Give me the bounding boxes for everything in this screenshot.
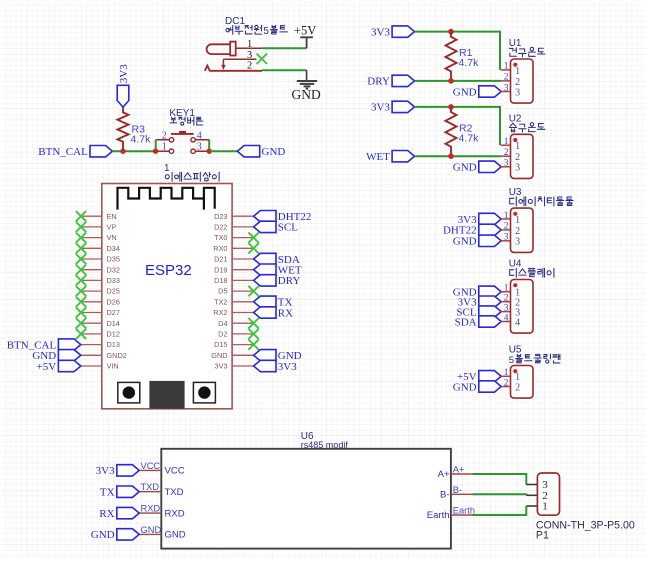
U6 pin Earth: [427, 506, 475, 522]
connector U4 body: [511, 280, 534, 334]
svg-text:+5V: +5V: [37, 361, 57, 373]
name calibration-button (Korean): [170, 117, 203, 125]
net flag RX (U6): [99, 507, 139, 520]
net flag SDA: [455, 316, 502, 329]
U5 pin 2 stub: [501, 378, 511, 388]
svg-text:3: 3: [504, 159, 509, 169]
net flag BTN_CAL: [38, 146, 112, 159]
connector U5 body: [511, 366, 534, 399]
svg-text:SDA: SDA: [455, 316, 477, 328]
name fan5v: [509, 354, 560, 366]
ESP32 pin GND2: [81, 351, 127, 360]
svg-text:D35: D35: [107, 255, 120, 264]
svg-text:B-: B-: [453, 485, 462, 495]
junction: [448, 29, 454, 35]
U6 pin GND: [139, 525, 186, 541]
svg-text:4.7k: 4.7k: [131, 134, 152, 146]
U6 pin RXD: [139, 504, 184, 520]
ESP32 pin GND: [211, 351, 253, 360]
name rs485 modif: [301, 440, 349, 450]
net flag GND: [453, 86, 501, 99]
svg-text:4: 4: [504, 313, 509, 323]
svg-text:2: 2: [515, 77, 520, 88]
svg-text:3: 3: [504, 83, 509, 93]
no-connect X on TX0: [248, 232, 258, 242]
net flag 3V3: [371, 26, 415, 39]
U4 pin 1 stub: [501, 284, 511, 294]
name wetbulb: [509, 123, 545, 132]
svg-text:2: 2: [515, 226, 520, 237]
junction KEY1 left: [153, 149, 158, 154]
ESP32 pin D12: [81, 330, 120, 339]
svg-text:D32: D32: [107, 265, 120, 274]
wire WET: [415, 155, 502, 157]
svg-text:GND: GND: [91, 529, 115, 541]
designator DC1: [225, 16, 245, 27]
svg-text:VCC: VCC: [165, 466, 185, 477]
svg-text:DRY: DRY: [278, 275, 301, 287]
svg-text:U4: U4: [509, 259, 522, 270]
U4 pin 2 stub: [501, 294, 511, 304]
svg-text:1: 1: [504, 284, 509, 294]
net flag 3V3: [371, 101, 415, 114]
svg-text:TXD: TXD: [141, 482, 160, 492]
svg-text:TX0: TX0: [214, 233, 227, 242]
no-connect X on D26: [76, 297, 86, 307]
svg-text:GND: GND: [262, 146, 286, 158]
resistor R1: [446, 32, 480, 81]
net flag GND (ESP32): [254, 350, 302, 363]
svg-text:1: 1: [164, 163, 170, 174]
U1 pin 3 stub: [501, 83, 511, 93]
net flag GND (U6): [91, 529, 139, 542]
ESP32 pin RX0: [213, 244, 253, 253]
svg-text:3: 3: [247, 50, 252, 61]
svg-text:EN: EN: [107, 212, 117, 221]
svg-text:BTN_CAL: BTN_CAL: [38, 146, 88, 158]
svg-text:D21: D21: [214, 255, 227, 264]
svg-text:ESP32: ESP32: [145, 262, 192, 279]
no-connect X on D32: [76, 265, 86, 275]
ESP32 pin D23: [214, 212, 253, 221]
net flag 3V3: [458, 296, 502, 309]
ESP32 pin VN: [81, 233, 117, 242]
designator P1: [536, 530, 549, 542]
U1 pin 1 stub: [501, 62, 511, 72]
net flag TX (U6): [100, 486, 139, 499]
net flag TX (ESP32): [254, 296, 293, 309]
svg-text:2: 2: [162, 130, 167, 141]
svg-text:D25: D25: [107, 287, 120, 296]
ground GND (DC1): [292, 70, 321, 102]
svg-text:RX: RX: [278, 307, 293, 319]
svg-text:3: 3: [504, 303, 509, 313]
ESP32 pin D32: [81, 265, 120, 274]
no-connect X on D4: [248, 318, 258, 328]
wire KEY1 pin4-pin3 right: [208, 140, 210, 151]
svg-text:A+: A+: [453, 465, 465, 475]
designator KEY1: [169, 108, 195, 119]
wire A+ to P1.3: [473, 474, 527, 485]
ESP32 pin D5: [218, 287, 253, 296]
U2 pin 1 stub: [501, 137, 511, 147]
svg-text:1: 1: [515, 215, 520, 226]
U3 pin 1 stub: [501, 211, 511, 221]
svg-text:D19: D19: [214, 265, 227, 274]
wire 3V3 rail: [415, 107, 501, 145]
ESP32 pin 3V3: [215, 362, 254, 371]
svg-text:DC1: DC1: [225, 16, 245, 27]
designator U1: [509, 38, 522, 49]
ESP32 pin TX0: [214, 233, 253, 242]
svg-text:GND: GND: [453, 86, 477, 98]
svg-text:1: 1: [504, 211, 509, 221]
U4 pin 4 stub: [501, 313, 511, 323]
name external-power-5V (Korean): [226, 25, 287, 37]
name ESP32 (Korean: i-e-s-pi-sam-i): [165, 172, 219, 181]
svg-text:TXD: TXD: [165, 487, 184, 498]
designator U2: [509, 113, 522, 124]
wire KEY1 pin2-pin1 left: [155, 140, 157, 151]
svg-text:D33: D33: [107, 276, 120, 285]
designator U3: [509, 187, 522, 198]
svg-text:VIN: VIN: [107, 362, 119, 371]
name display: [510, 268, 554, 277]
svg-text:D4: D4: [218, 319, 227, 328]
ESP32 pin D4: [218, 319, 253, 328]
ESP32 pin D22: [214, 223, 253, 232]
U3 pin 3 stub: [501, 233, 511, 243]
footprint CONN-TH_3P-P5.00: [536, 519, 635, 531]
no-connect X on D27: [76, 307, 86, 317]
wire Earth to P1.1: [473, 506, 527, 515]
no-connect X on DC1 pin 3: [257, 54, 267, 64]
U6 pin B-: [440, 485, 473, 501]
svg-text:D15: D15: [214, 340, 227, 349]
svg-text:U3: U3: [509, 187, 522, 198]
svg-text:2: 2: [515, 152, 520, 163]
DC1 pin number 2: [247, 61, 252, 72]
ESP32 pin D26: [81, 297, 120, 306]
no-connect X on EN: [76, 211, 86, 221]
designator U5: [509, 345, 522, 356]
no-connect X on D14: [76, 318, 86, 328]
KEY1 pin 1: [162, 142, 167, 153]
wire KEY1 to GND: [209, 150, 237, 152]
svg-text:U1: U1: [509, 38, 522, 49]
svg-text:TX: TX: [100, 487, 115, 499]
wire B- to P1.2: [473, 494, 527, 495]
net flag RX (ESP32): [254, 307, 294, 320]
power flag +5V: [294, 24, 316, 49]
svg-text:3: 3: [504, 233, 509, 243]
svg-text:GND: GND: [453, 162, 477, 174]
no-connect X on D33: [76, 275, 86, 285]
junction: [448, 78, 454, 84]
net flag SDA (ESP32): [254, 253, 300, 265]
DC1 pin number 3: [247, 50, 252, 61]
svg-text:GND: GND: [211, 351, 227, 360]
junction: [448, 153, 454, 159]
svg-text:D2: D2: [218, 330, 227, 339]
svg-text:SCL: SCL: [278, 222, 298, 234]
svg-text:GND: GND: [292, 87, 321, 102]
svg-text:3V3: 3V3: [96, 465, 115, 477]
svg-text:+5V: +5V: [294, 24, 316, 38]
svg-text:D13: D13: [107, 340, 120, 349]
svg-text:D12: D12: [107, 330, 120, 339]
svg-text:3: 3: [197, 142, 202, 153]
svg-text:D23: D23: [214, 212, 227, 221]
net flag GND: [453, 235, 501, 248]
net flag DRY: [367, 75, 414, 88]
U4 pin 3 stub: [501, 303, 511, 313]
ESP32 pin D27: [81, 308, 120, 317]
resistor R2: [446, 107, 480, 156]
svg-text:4.7k: 4.7k: [459, 133, 480, 145]
svg-text:D5: D5: [218, 287, 227, 296]
U1 pin 2 stub: [501, 73, 511, 83]
svg-text:1: 1: [504, 368, 509, 378]
net flag GND (ESP32): [32, 350, 80, 363]
ESP32 pin D19: [214, 265, 253, 274]
ESP32 pin D13: [81, 340, 120, 349]
ESP32 pin RX2: [213, 308, 253, 317]
svg-text:D26: D26: [107, 297, 120, 306]
net flag 3V3 (U6): [96, 465, 140, 478]
svg-text:3: 3: [515, 237, 520, 248]
svg-text:VCC: VCC: [141, 461, 161, 471]
ESP32 pin D15: [214, 340, 253, 349]
wire DRY: [415, 80, 502, 82]
svg-text:4.7k: 4.7k: [459, 57, 480, 69]
no-connect X on D25: [76, 286, 86, 296]
KEY1 pin 4: [197, 130, 202, 141]
junction R3/BTN_CAL: [120, 149, 125, 154]
net flag DHT22 (ESP32): [254, 211, 312, 224]
U3 pin 2 stub: [501, 222, 511, 232]
svg-text:3: 3: [515, 87, 520, 98]
net flag DHT22: [443, 224, 501, 237]
designator 1 (ESP32 module): [164, 163, 170, 174]
svg-text:3: 3: [515, 163, 520, 174]
net flag SCL (ESP32): [254, 221, 299, 234]
net flag +5V: [457, 371, 501, 384]
svg-text:RX2: RX2: [213, 308, 227, 317]
ESP32 pin D33: [81, 276, 120, 285]
net flag GND: [453, 381, 501, 394]
svg-text:2: 2: [515, 382, 520, 393]
net flag GND (KEY1): [237, 146, 285, 159]
connector U2 body: [511, 134, 534, 178]
designator U6: [301, 431, 314, 442]
svg-text:D18: D18: [214, 276, 227, 285]
svg-text:5: 5: [509, 355, 514, 366]
svg-text:U2: U2: [509, 113, 522, 124]
switch KEY1: [156, 131, 210, 154]
U6 pin TXD: [139, 482, 183, 498]
U6 pin VCC: [139, 461, 184, 477]
module U6 body: [161, 449, 451, 549]
svg-text:1: 1: [162, 142, 167, 153]
connector DC1 barrel jack symbol: [205, 42, 262, 71]
net flag BTN_CAL (ESP32): [7, 339, 81, 352]
svg-text:3V3: 3V3: [278, 361, 297, 373]
svg-text:TX2: TX2: [214, 297, 227, 306]
label ESP32: [145, 262, 192, 279]
svg-text:4: 4: [515, 317, 520, 328]
antenna meander: [118, 188, 215, 210]
svg-text:GND: GND: [165, 530, 186, 541]
svg-text:GND2: GND2: [107, 351, 127, 360]
svg-text:1: 1: [504, 62, 509, 72]
ESP32 pin D25: [81, 287, 120, 296]
svg-text:1: 1: [515, 141, 520, 152]
svg-text:3V3: 3V3: [371, 102, 390, 114]
ESP32 pin D21: [214, 255, 253, 264]
svg-text:Earth: Earth: [453, 506, 475, 516]
ESP32 pin VIN: [81, 362, 119, 371]
ESP32 pin D18: [214, 276, 253, 285]
ESP32 pin TX2: [214, 297, 253, 306]
no-connect X on VN: [76, 232, 86, 242]
ESP32 pin D34: [81, 244, 120, 253]
net flag SCL: [456, 306, 501, 319]
no-connect X on VP: [76, 222, 86, 232]
svg-text:1: 1: [542, 501, 548, 513]
svg-text:RX0: RX0: [213, 244, 227, 253]
ESP32 pin D35: [81, 255, 120, 264]
shield block: [149, 381, 184, 409]
junction: [448, 104, 454, 110]
svg-text:B-: B-: [440, 490, 450, 501]
no-connect X on D2: [248, 329, 258, 339]
svg-text:2: 2: [504, 294, 509, 304]
svg-text:3V3: 3V3: [118, 64, 130, 83]
mounting pad right: [193, 382, 215, 403]
no-connect X on D12: [76, 329, 86, 339]
junction KEY1 right: [207, 149, 212, 154]
svg-text:RX: RX: [99, 508, 114, 520]
U5 pin 1 stub: [501, 368, 511, 378]
net flag 3V3 (vertical): [117, 64, 130, 107]
svg-text:GND: GND: [141, 525, 162, 535]
U6 pin A+: [438, 465, 473, 481]
net flag DRY (ESP32): [254, 275, 301, 288]
svg-text:5: 5: [263, 26, 269, 37]
svg-text:2: 2: [504, 378, 509, 388]
svg-text:1: 1: [247, 39, 252, 50]
DC1 pin number 1: [247, 39, 252, 50]
designator U4: [509, 259, 522, 270]
module U? ESP32 body: [102, 184, 232, 409]
svg-text:D27: D27: [107, 308, 120, 317]
ESP32 pin D2: [218, 330, 253, 339]
resistor R3: [118, 107, 152, 151]
svg-text:GND: GND: [453, 236, 477, 248]
name dht22: [510, 197, 573, 206]
svg-text:P1: P1: [536, 530, 549, 542]
net flag WET: [366, 151, 414, 164]
svg-text:3V3: 3V3: [215, 362, 228, 371]
name drybulb: [510, 47, 545, 56]
svg-text:2: 2: [504, 73, 509, 83]
svg-text:VP: VP: [107, 223, 117, 232]
svg-text:3V3: 3V3: [371, 26, 390, 38]
connector U3 body: [511, 208, 534, 252]
svg-text:WET: WET: [366, 151, 390, 163]
svg-text:D34: D34: [107, 244, 120, 253]
svg-text:RXD: RXD: [165, 508, 185, 519]
svg-text:GND: GND: [453, 381, 477, 393]
net flag WET (ESP32): [254, 264, 302, 277]
net flag 3V3 (ESP32): [254, 360, 298, 373]
wire BTN_CAL to KEY1: [112, 150, 156, 152]
ESP32 pin EN: [81, 212, 117, 221]
connector U1 body: [511, 59, 534, 103]
svg-text:1: 1: [504, 137, 509, 147]
no-connect X on D15: [248, 339, 258, 349]
svg-text:D14: D14: [107, 319, 120, 328]
svg-text:VN: VN: [107, 233, 117, 242]
svg-text:2: 2: [247, 61, 252, 72]
svg-text:CONN-TH_3P-P5.00: CONN-TH_3P-P5.00: [536, 519, 635, 531]
wire DC1 pin1 to +5V: [262, 47, 307, 49]
svg-text:D22: D22: [214, 223, 227, 232]
no-connect X on D35: [76, 254, 86, 264]
P1 pin 3 stub: [526, 484, 537, 486]
svg-text:4: 4: [197, 130, 202, 141]
net flag +5V (ESP32): [37, 360, 81, 373]
no-connect X on RX0: [248, 243, 258, 253]
no-connect X on D5: [248, 286, 258, 296]
connector P1 body: [537, 473, 559, 515]
svg-text:RXD: RXD: [141, 504, 161, 514]
P1 pin 1 stub: [526, 505, 537, 507]
U2 pin 2 stub: [501, 148, 511, 158]
KEY1 pin 2: [162, 130, 167, 141]
wire DC1 pin2 to GND: [262, 69, 307, 71]
net flag GND: [453, 286, 501, 299]
svg-text:Earth: Earth: [427, 510, 450, 521]
net flag GND: [453, 161, 501, 174]
svg-text:2: 2: [504, 222, 509, 232]
wire 3V3 rail: [415, 32, 501, 70]
KEY1 pin 3: [197, 142, 202, 153]
no-connect X on D34: [76, 243, 86, 253]
net flag 3V3: [458, 213, 502, 226]
ESP32 pin D14: [81, 319, 120, 328]
svg-text:1: 1: [515, 66, 520, 77]
svg-text:DRY: DRY: [367, 76, 390, 88]
ESP32 pin VP: [81, 223, 116, 232]
svg-text:A+: A+: [438, 469, 450, 480]
P1 pin 2 stub: [526, 494, 537, 496]
U2 pin 3 stub: [501, 159, 511, 169]
svg-text:2: 2: [504, 148, 509, 158]
mounting pad left: [118, 382, 140, 403]
